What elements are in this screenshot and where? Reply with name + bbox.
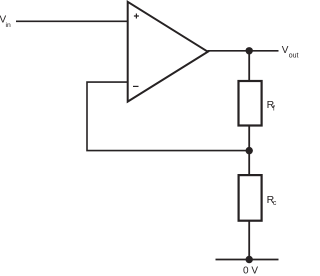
node output junction	[246, 47, 253, 54]
wire feedback node to Rc	[248, 151, 250, 176]
wire Vin to op-amp noninverting input	[16, 20, 128, 22]
node feedback junction	[246, 147, 253, 154]
wire Rf to feedback node	[248, 126, 250, 151]
svg-text:f: f	[273, 106, 275, 113]
pin + noninverting input marker	[134, 14, 139, 19]
svg-text:in: in	[6, 22, 12, 29]
node ground junction	[246, 256, 253, 263]
wire Rc to ground	[248, 221, 250, 260]
svg-text:out: out	[289, 52, 299, 59]
wire op-amp output to Vout	[208, 50, 279, 52]
wire feedback node to inverting input	[87, 82, 249, 151]
op-amp U1	[128, 2, 208, 102]
wire output node to Rf	[248, 51, 250, 81]
resistor Rf	[239, 81, 262, 126]
svg-text:0 V: 0 V	[243, 266, 258, 276]
svg-text:c: c	[273, 200, 277, 207]
resistor Rc	[239, 175, 262, 221]
pin - inverting input marker	[133, 85, 139, 87]
ground rail 0V	[216, 259, 279, 261]
